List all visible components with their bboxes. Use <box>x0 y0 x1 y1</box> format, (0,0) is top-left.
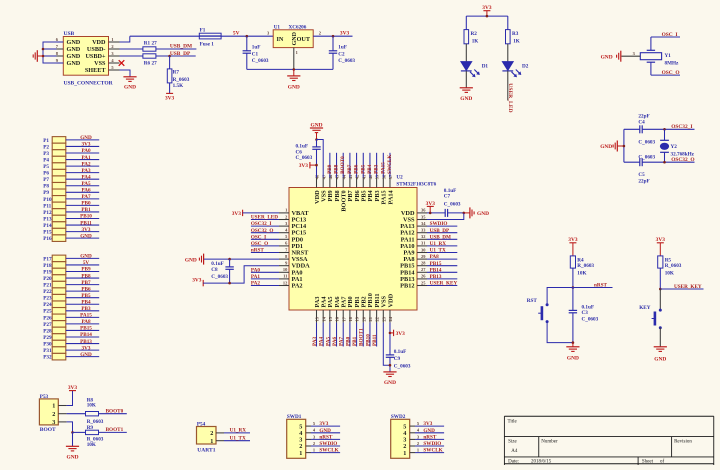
wire/net PB8 (U2 pin 45) <box>336 153 338 178</box>
svg-text:Size: Size <box>508 440 517 445</box>
svg-text:P6: P6 <box>43 171 49 177</box>
svg-text:PA3: PA3 <box>312 336 318 346</box>
wire/net PB7 (P21) <box>66 284 99 286</box>
svg-text:PB14: PB14 <box>80 332 92 338</box>
resistor R3 1K <box>506 30 511 44</box>
SWD2 pin 3 (nRST) <box>410 438 415 440</box>
junction: C1 tap <box>246 35 249 38</box>
connector pin P17 <box>52 255 66 262</box>
svg-text:2018/6/15: 2018/6/15 <box>531 459 552 464</box>
connector pin P7 <box>52 176 66 183</box>
junction: 3V3 tap pin24 <box>389 332 392 335</box>
ground GND (USB shield) <box>123 76 136 78</box>
svg-text:Title: Title <box>508 419 518 424</box>
svg-text:GND: GND <box>601 54 613 60</box>
resistor R6 27 <box>143 54 156 58</box>
mcu U2 STM32F103C8T6 <box>289 188 417 311</box>
svg-text:P11: P11 <box>43 203 51 209</box>
svg-text:1: 1 <box>52 403 55 410</box>
power port 3V3 (LED rail) <box>483 10 490 12</box>
svg-text:USB_DP: USB_DP <box>170 51 191 57</box>
U2 pin 12 (PA2) <box>279 285 289 287</box>
svg-text:C8: C8 <box>211 267 218 273</box>
wire/net USER_KEY <box>660 288 703 290</box>
svg-text:PB3: PB3 <box>81 306 91 312</box>
svg-text:P20: P20 <box>43 276 52 282</box>
svg-text:P8: P8 <box>43 184 49 190</box>
svg-text:OSC32_O: OSC32_O <box>251 228 273 234</box>
svg-text:PB12: PB12 <box>400 283 414 290</box>
connector pin P26 <box>52 314 66 321</box>
wire: node to RST switch <box>547 288 573 305</box>
wire/net USER_LED (U2 pin 2) <box>251 219 279 221</box>
junction: USER_KEY node <box>659 288 662 291</box>
svg-text:P15: P15 <box>43 230 52 236</box>
svg-text:41: 41 <box>361 175 366 179</box>
svg-text:P53: P53 <box>40 394 49 400</box>
USB pin 6 (GND) <box>57 41 64 43</box>
svg-text:PB1: PB1 <box>81 207 91 213</box>
svg-text:GND: GND <box>654 356 666 362</box>
voltage regulator U1 XC6206 <box>273 30 313 48</box>
svg-text:P18: P18 <box>43 263 52 269</box>
svg-text:USER_KEY: USER_KEY <box>430 281 458 287</box>
svg-text:PA15: PA15 <box>80 313 92 319</box>
connector pin P4 <box>52 156 66 163</box>
wire/net USB_DM (U2 pin 32) <box>427 238 457 240</box>
junction: 3V3 into pin48 <box>315 164 318 167</box>
wire: KEY to GND <box>659 328 661 347</box>
USB pin 5 (SHEET) <box>109 69 120 71</box>
svg-text:31: 31 <box>421 241 425 246</box>
svg-text:5V: 5V <box>233 31 240 37</box>
power port 3V3 (KEY pullup) <box>657 242 664 244</box>
power port 3V3 (U2 pin24) <box>390 332 393 334</box>
wire: 5V rail from USB to fuse <box>130 35 200 37</box>
resistor R4 10K <box>570 256 575 268</box>
resistor R7 1.5K pullup <box>167 69 172 83</box>
wire/net PA5 (U2 pin 15) <box>329 323 331 347</box>
wire/net PA4 (U2 pin 14) <box>322 323 324 347</box>
junction: pin3/R9/GND node <box>71 431 74 434</box>
svg-text:P21: P21 <box>43 283 52 289</box>
wire/net PA7 (U2 pin 17) <box>342 323 344 347</box>
svg-text:D1: D1 <box>482 63 489 69</box>
svg-text:C9: C9 <box>394 356 401 362</box>
SWD1 pin 2 (SWDIO) <box>306 445 311 447</box>
svg-text:PA7: PA7 <box>339 336 345 346</box>
U2 pin 44 (BOOT0) <box>342 178 344 188</box>
wire/net PB13 (U2 pin 26) <box>427 278 457 280</box>
svg-text:OSC_O: OSC_O <box>251 241 268 247</box>
U2 pin 7 (NRST) <box>279 252 289 254</box>
wire/net PA2 (U2 pin 12) <box>251 285 279 287</box>
U2 pin 24 (VDD) <box>389 310 391 323</box>
connector pin P22 <box>52 288 66 295</box>
wire: rail to R3 <box>507 16 509 30</box>
svg-text:OSC_I: OSC_I <box>251 234 266 240</box>
svg-text:GND: GND <box>477 211 489 217</box>
svg-text:USB_DP: USB_DP <box>430 228 450 234</box>
svg-text:USB_CONNECTOR: USB_CONNECTOR <box>64 81 114 87</box>
wire/net PB14 (U2 pin 27) <box>427 271 457 273</box>
svg-text:USBD-: USBD- <box>87 46 106 53</box>
svg-text:SWDIO: SWDIO <box>430 221 448 227</box>
wire: R1 to USB_DM stub <box>156 48 197 50</box>
svg-text:PB9: PB9 <box>327 164 333 174</box>
wire/net PA2 (P5) <box>66 165 99 167</box>
P54 pin 1 <box>216 440 224 442</box>
wire/net GND (P17) <box>66 257 99 259</box>
svg-text:PB0: PB0 <box>345 336 351 346</box>
svg-text:nRST: nRST <box>319 434 333 440</box>
svg-text:GND: GND <box>67 455 79 461</box>
svg-text:10K: 10K <box>665 270 674 276</box>
svg-text:SHEET: SHEET <box>85 67 107 74</box>
wire: OSC_I <box>651 36 680 38</box>
svg-text:GND: GND <box>292 31 298 45</box>
wire: R7 to 3V3 port <box>169 83 171 94</box>
svg-text:1K: 1K <box>513 39 520 45</box>
wire: node down to KEY switch <box>659 289 661 310</box>
SWD1 pin 4 (GND) <box>306 432 311 434</box>
connector pin P18 <box>52 262 66 269</box>
U1 pin 1 (GND) lead <box>293 48 295 70</box>
svg-text:GND: GND <box>67 39 81 46</box>
connector pin P11 <box>52 202 66 209</box>
svg-text:27: 27 <box>152 61 158 67</box>
svg-text:PA6: PA6 <box>332 336 338 346</box>
svg-text:PA8: PA8 <box>430 254 440 260</box>
wire/net PB6 (P22) <box>66 290 99 292</box>
USB pin 8 (GND) <box>57 55 64 57</box>
no-connect X on VSS pin <box>119 60 125 66</box>
junction: VSS joins C9 bottom <box>389 364 392 367</box>
USB connector J? (USB_CONNECTOR) <box>63 37 108 76</box>
U2 pin 18 (PB0) <box>349 310 351 323</box>
wire: USB GND bus <box>43 42 63 63</box>
svg-text:2: 2 <box>111 44 113 49</box>
resistor R1 27 <box>143 47 156 51</box>
U2 pin 10 (PA0) <box>279 271 289 273</box>
svg-text:P12: P12 <box>43 210 52 216</box>
chassis/earth ground symbol <box>36 50 38 62</box>
svg-text:GND: GND <box>80 254 92 260</box>
wire: USBD- to R1 <box>120 48 144 50</box>
svg-text:C2: C2 <box>338 51 345 57</box>
svg-text:PB8: PB8 <box>334 164 340 174</box>
wire: regulator output <box>313 35 352 37</box>
wire/net PB11 (U2 pin 22) <box>376 323 378 347</box>
SWD2 pin 2 (SWDIO) <box>410 445 415 447</box>
U2 pin 2 (PC13) <box>279 219 289 221</box>
svg-text:3V3: 3V3 <box>340 31 350 37</box>
wire: P53 pin3 down <box>67 422 73 433</box>
wire/net PA0 (P3) <box>66 152 99 154</box>
svg-text:3V3: 3V3 <box>319 421 328 427</box>
svg-text:BOOT1: BOOT1 <box>106 427 124 433</box>
wire/net 3V3 (P31) <box>66 349 99 351</box>
svg-text:P27: P27 <box>43 322 52 328</box>
svg-text:KEY: KEY <box>639 305 650 311</box>
U2 pin 25 (PB12) <box>417 285 427 287</box>
wire/net PB4 (P24) <box>66 303 99 305</box>
connector pin P24 <box>52 301 66 308</box>
wire/net PB13 (P30) <box>66 343 99 345</box>
wire/net PB4 (U2 pin 40) <box>369 153 371 178</box>
P53 pin 2 <box>58 413 66 415</box>
power port 3V3 (BOOT) <box>69 390 76 392</box>
wire: pin36 VDD rail <box>427 212 445 214</box>
wire/net PA3 (U2 pin 13) <box>316 323 318 347</box>
svg-text:Number: Number <box>541 440 558 445</box>
U2 pin 47 (VSS) <box>322 178 324 188</box>
svg-text:Y1: Y1 <box>665 53 672 59</box>
wire: R5 to USER_KEY node <box>659 268 661 289</box>
title block frame <box>504 415 713 417</box>
svg-text:SWCLK: SWCLK <box>387 155 393 174</box>
svg-text:PA1: PA1 <box>81 155 91 161</box>
U2 pin 13 (PA3) <box>316 310 318 323</box>
wire: Y1 to OSC_O <box>650 62 652 75</box>
wire: USBD+ to R6 <box>120 55 144 57</box>
U2 pin 43 (PB7) <box>349 178 351 188</box>
wire: pin23 VSS to ground node <box>383 323 390 366</box>
junction: C8 bottom tap <box>228 282 231 285</box>
svg-text:P25: P25 <box>43 309 52 315</box>
wire/net PB5 (U2 pin 41) <box>362 153 364 178</box>
junction: C2 tap <box>332 35 335 38</box>
svg-text:SWDIO: SWDIO <box>423 441 441 447</box>
svg-text:GND: GND <box>185 258 197 264</box>
svg-text:GND: GND <box>384 380 396 386</box>
svg-text:P23: P23 <box>43 296 52 302</box>
svg-text:PA4: PA4 <box>81 174 91 180</box>
svg-text:PB8: PB8 <box>81 273 91 279</box>
svg-text:GND: GND <box>288 84 300 90</box>
wire: D2 cathode stub <box>507 71 509 101</box>
wire: bus to chassis ground <box>37 55 43 57</box>
svg-text:BOOT0: BOOT0 <box>106 408 124 414</box>
svg-text:SWCLK: SWCLK <box>319 448 338 454</box>
svg-text:of: of <box>660 459 665 464</box>
U2 pin 32 (PA11) <box>417 238 427 240</box>
svg-text:P13: P13 <box>43 216 52 222</box>
U2 pin 38 (PA15) <box>382 178 384 188</box>
svg-text:U1_TX: U1_TX <box>430 248 446 254</box>
svg-text:PB11: PB11 <box>372 334 378 346</box>
U2 pin 41 (PB5) <box>362 178 364 188</box>
svg-text:PA3: PA3 <box>81 168 91 174</box>
wire/net PB15 (P28) <box>66 329 99 331</box>
svg-text:R9: R9 <box>87 425 94 431</box>
wire/net PB3 (P25) <box>66 310 99 312</box>
U2 pin 48 (VDD) <box>316 178 318 188</box>
wire/net PA0 (U2 pin 10) <box>251 271 279 273</box>
wire/net GND (P32) <box>66 356 99 358</box>
U2 pin 20 (PB2) <box>362 310 364 323</box>
svg-text:USER_LED: USER_LED <box>507 83 513 112</box>
wire/net PB10 (U2 pin 21) <box>369 323 371 347</box>
svg-text:Sheet: Sheet <box>642 459 654 464</box>
connector pin P21 <box>52 281 66 288</box>
svg-text:PB3: PB3 <box>374 164 380 174</box>
USB pin 3 (USBD+) <box>109 55 120 57</box>
svg-text:P4: P4 <box>43 157 49 163</box>
svg-text:3V3: 3V3 <box>396 331 406 337</box>
svg-text:1: 1 <box>296 50 298 55</box>
wire/net 3V3 (P15) <box>66 231 99 233</box>
svg-text:3V3: 3V3 <box>568 237 578 243</box>
svg-text:PB4: PB4 <box>367 164 373 174</box>
USB pin 1 (VDD) <box>109 41 120 43</box>
svg-text:BOOT0: BOOT0 <box>340 156 346 174</box>
wire/net OSC_I (U2 pin 5) <box>251 238 279 240</box>
fuse F1 (Fuse 1) <box>199 33 221 39</box>
wire: GND node down to pin35 VSS <box>427 213 464 220</box>
power port 3V3 (RST pullup) <box>569 242 576 244</box>
wire: top rail OSC32_I <box>624 128 640 130</box>
svg-text:IN: IN <box>277 36 284 43</box>
svg-text:USER_LED: USER_LED <box>251 215 278 221</box>
wire: rail to R2 <box>465 16 467 30</box>
wire/net SWCLK (U2 pin 37) <box>389 153 391 178</box>
power ground GND (U2 pin35/36 area) <box>464 212 470 214</box>
wire/net U1_RX <box>224 432 250 434</box>
wire: ground rail under regulator <box>247 68 333 70</box>
wire/net GND (P16) <box>66 237 99 239</box>
svg-text:SWDIO: SWDIO <box>319 441 337 447</box>
connector pin P25 <box>52 308 66 315</box>
junction: GND node above C6 <box>315 138 318 141</box>
svg-text:U1: U1 <box>274 25 281 31</box>
junction: nRST node <box>572 286 575 289</box>
svg-text:U1_TX: U1_TX <box>230 436 246 442</box>
svg-text:nRST: nRST <box>251 248 265 254</box>
connector pin P27 <box>52 321 66 328</box>
svg-text:10K: 10K <box>87 403 96 409</box>
svg-text:10K: 10K <box>87 442 96 448</box>
svg-text:PB14: PB14 <box>430 267 442 273</box>
wire/net PB10 (P13) <box>66 218 99 220</box>
svg-text:1K: 1K <box>472 39 479 45</box>
SWD2 pin 5 (3V3) <box>410 425 415 427</box>
U2 pin 39 (PB3) <box>376 178 378 188</box>
svg-text:PB13: PB13 <box>430 274 442 280</box>
U2 pin 31 (PA10) <box>417 245 427 247</box>
connector pin P32 <box>52 353 66 360</box>
USB pin 9 (GND) <box>57 62 64 64</box>
svg-text:OSC32_I: OSC32_I <box>671 124 692 130</box>
U2 pin 21 (PB10) <box>369 310 371 323</box>
svg-text:27: 27 <box>152 40 158 46</box>
svg-text:USBD+: USBD+ <box>85 53 106 60</box>
wire/net PA8 (U2 pin 29) <box>427 258 457 260</box>
svg-text:2: 2 <box>319 31 321 36</box>
connector pin P29 <box>52 334 66 341</box>
svg-text:0.1uF: 0.1uF <box>211 261 224 267</box>
U2 pin 8 (VSSA) <box>279 258 289 260</box>
wire/net PA6 (U2 pin 16) <box>336 323 338 347</box>
svg-text:GND: GND <box>67 46 81 53</box>
wire/net BOOT1 <box>99 431 127 433</box>
svg-text:PB7: PB7 <box>81 280 91 286</box>
wire/net PA4 (P7) <box>66 178 99 180</box>
connector pin P23 <box>52 294 66 301</box>
svg-text:C4: C4 <box>638 120 645 126</box>
svg-text:A4: A4 <box>511 449 518 454</box>
svg-text:BOOT: BOOT <box>40 427 56 433</box>
svg-text:PB10: PB10 <box>80 214 92 220</box>
wire: P53 pin2 to R8 <box>67 413 86 415</box>
U2 pin 29 (PA8) <box>417 258 427 260</box>
svg-text:0.1uF: 0.1uF <box>296 143 309 149</box>
svg-text:R_0603: R_0603 <box>577 263 594 269</box>
svg-text:PA6: PA6 <box>81 188 91 194</box>
ground GND (U2 bottom) <box>383 371 396 373</box>
svg-text:P19: P19 <box>43 269 52 275</box>
connector pin P5 <box>52 163 66 170</box>
svg-text:PB10: PB10 <box>365 334 371 346</box>
svg-text:P22: P22 <box>43 289 52 295</box>
wire: junction down to R7 <box>169 56 171 69</box>
USB pin 2 (USBD-) <box>109 48 120 50</box>
P53 pin 1 <box>58 405 66 407</box>
svg-text:PB5: PB5 <box>360 164 366 174</box>
svg-text:GND: GND <box>423 428 435 434</box>
svg-text:U1_RX: U1_RX <box>430 241 447 247</box>
svg-text:PB13: PB13 <box>80 339 92 345</box>
SWD1 pin 5 (3V3) <box>306 425 311 427</box>
SWD1 pin 1 (SWCLK) <box>306 452 311 454</box>
svg-text:PA7: PA7 <box>81 194 91 200</box>
power ground GND (Y1 case) <box>620 51 622 62</box>
wire: bottom rail OSC32_O <box>624 161 640 163</box>
SWD1 pin 3 (nRST) <box>306 438 311 440</box>
wire/net PB9 (P19) <box>66 271 99 273</box>
wire: D1 to GND <box>465 71 467 88</box>
U2 pin 40 (PB4) <box>369 178 371 188</box>
wire: GND to pin47 VSS riser <box>317 140 324 178</box>
svg-text:GND: GND <box>124 84 136 90</box>
wire: R6 to USB_DP stub <box>156 55 196 57</box>
svg-text:VSS: VSS <box>94 60 106 67</box>
svg-text:1uF: 1uF <box>338 45 347 51</box>
U2 pin 6 (PD1) <box>279 245 289 247</box>
svg-text:PA1: PA1 <box>251 274 261 280</box>
USB pin 7 (GND) <box>57 48 64 50</box>
svg-text:SWD1: SWD1 <box>287 414 302 420</box>
svg-text:SWCLK: SWCLK <box>423 448 442 454</box>
wire/net 3V3 (P2) <box>66 145 99 147</box>
connector SWD1 <box>287 419 306 458</box>
U2 pin 4 (PC15) <box>279 232 289 234</box>
svg-text:VDD: VDD <box>92 39 106 46</box>
U2 pin 42 (PB6) <box>356 178 358 188</box>
wire/net PA8 (P27) <box>66 323 99 325</box>
wire/net PA6 (P9) <box>66 191 99 193</box>
ground GND (RST) <box>572 343 574 347</box>
svg-text:2: 2 <box>313 441 315 446</box>
connector pin P1 <box>52 137 66 144</box>
connector pin P10 <box>52 196 66 203</box>
U2 pin 14 (PA4) <box>322 310 324 323</box>
connector pin P16 <box>52 235 66 242</box>
U2 pin 26 (PB13) <box>417 278 427 280</box>
U2 pin 15 (PA5) <box>329 310 331 323</box>
svg-text:PA5: PA5 <box>81 181 91 187</box>
wire: P53 pin1 to 3V3 <box>67 391 73 406</box>
